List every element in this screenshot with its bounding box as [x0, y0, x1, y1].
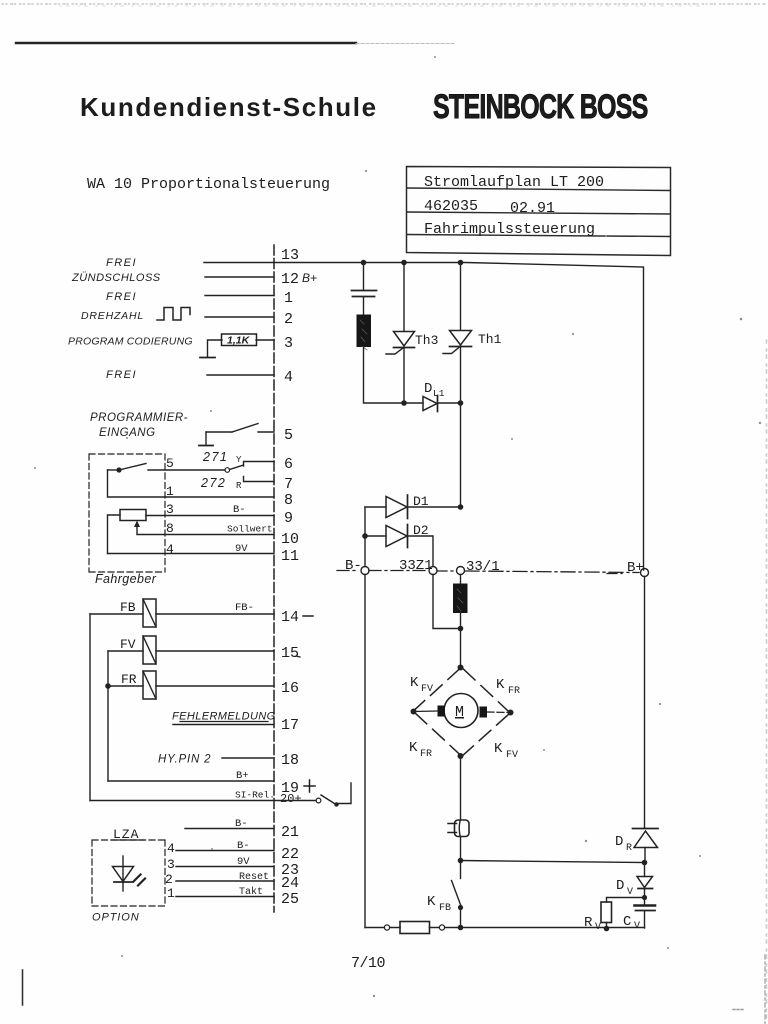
svg-text:FB: FB — [439, 903, 451, 914]
wire pin2 — [205, 316, 274, 318]
svg-text:3: 3 — [284, 335, 293, 352]
svg-text:FV: FV — [120, 637, 136, 652]
top rule line — [16, 42, 455, 45]
svg-text:Th1: Th1 — [478, 332, 502, 347]
node B+ terminal circle — [641, 569, 649, 577]
SI relay switch after pin20 — [316, 783, 351, 807]
svg-text:462035: 462035 — [424, 198, 478, 215]
label LZA — [111, 827, 144, 842]
svg-text:B-: B- — [345, 558, 362, 574]
svg-text:8: 8 — [284, 492, 293, 509]
wire pin1 — [205, 295, 274, 297]
contact circle S272 — [225, 468, 230, 473]
junction dot switch pivot — [116, 467, 121, 472]
junction dot DL1 rail right — [458, 400, 464, 406]
resistor R1 filled — [357, 315, 371, 350]
label DL1 — [424, 381, 445, 399]
svg-text:5: 5 — [166, 456, 174, 471]
wire pin24 Reset — [176, 872, 274, 883]
junction node at Th1 branch — [458, 260, 464, 266]
svg-text:R: R — [236, 481, 242, 491]
wire pin17 — [173, 724, 274, 726]
wire pin15 — [108, 650, 274, 652]
svg-text:FB-: FB- — [235, 602, 254, 614]
svg-text:18: 18 — [281, 752, 299, 769]
resistor RV — [601, 902, 612, 923]
svg-text:K: K — [410, 675, 419, 691]
wire D1 anode down to B- node — [364, 507, 366, 566]
wire pin8 — [108, 470, 275, 497]
contact KFV arm bottom-right — [462, 714, 509, 756]
svg-text:21: 21 — [281, 824, 299, 841]
wire pin22 B- — [176, 840, 274, 852]
wire left vertex to brush — [414, 710, 438, 713]
potentiometer body — [120, 510, 146, 521]
svg-text:8: 8 — [166, 521, 174, 536]
label CV — [623, 914, 640, 932]
wire B+ node down to DR — [644, 577, 646, 829]
junction node at Th3 branch — [401, 260, 407, 266]
svg-text:33/1: 33/1 — [466, 559, 500, 575]
relay contact FV — [120, 636, 156, 664]
svg-text:1: 1 — [167, 886, 175, 901]
wire pin18 — [222, 757, 274, 759]
svg-text:22: 22 — [281, 846, 299, 863]
scan mark bottom-left — [22, 970, 24, 1005]
junction node at capacitor branch — [361, 260, 367, 266]
motor bridge top vertex — [458, 665, 464, 671]
wire pin19 B+ — [108, 770, 274, 782]
wire pin14 FB- — [90, 602, 274, 614]
wire pin9 B- — [146, 515, 274, 517]
svg-text:17: 17 — [281, 717, 299, 734]
wire pin7 stub — [244, 477, 275, 482]
scan noise dotted strip top — [2, 4, 766, 6]
underline FEHLERMELDUNG — [180, 721, 268, 723]
svg-text:Fahrimpulssteuerung: Fahrimpulssteuerung — [424, 221, 595, 238]
contact KFR arm top-right — [463, 669, 510, 713]
svg-text:4: 4 — [284, 369, 293, 386]
motor brush right — [480, 707, 488, 718]
svg-text:OPTION: OPTION — [92, 912, 140, 924]
svg-text:Y: Y — [236, 455, 242, 465]
switch S271 at pin5 — [206, 424, 274, 445]
resistor R2 filled — [454, 584, 468, 613]
diode D2 — [365, 525, 433, 567]
label 271 Y — [202, 450, 242, 465]
wire 33Z1 node down and over — [433, 575, 461, 629]
contact KFR arm bottom-left — [415, 713, 462, 757]
svg-text:K: K — [494, 741, 503, 757]
svg-text:K: K — [496, 677, 505, 693]
svg-text:Kundendienst-Schule: Kundendienst-Schule — [80, 92, 378, 122]
node 33/1 terminal circle — [457, 567, 465, 575]
junction dot below R2 — [458, 626, 464, 632]
pin 19 plus note — [304, 780, 315, 792]
dash-dot lead left of B- — [337, 570, 359, 572]
dash-dot rail 33/1 to B+ — [465, 571, 639, 573]
svg-text:HY.PIN 2: HY.PIN 2 — [158, 754, 211, 766]
scan noise right edge — [766, 340, 768, 1024]
bottom rail wire — [365, 927, 645, 929]
svg-text:Reset: Reset — [239, 872, 269, 883]
fuse F1 — [400, 922, 430, 934]
svg-text:5: 5 — [284, 427, 293, 444]
wire pin21 B- — [185, 818, 274, 830]
svg-text:Th3: Th3 — [415, 333, 438, 348]
svg-text:DREHZAHL: DREHZAHL — [81, 310, 144, 322]
svg-text:B-: B- — [233, 504, 246, 516]
svg-text:PROGRAM CODIERUNG: PROGRAM CODIERUNG — [68, 336, 193, 348]
svg-text:7: 7 — [284, 476, 293, 493]
dash-dot rail 33Z1 to 33/1 — [438, 570, 456, 572]
svg-text:9: 9 — [284, 510, 293, 527]
node 33Z1 terminal circle — [429, 567, 437, 575]
dash-dot rail B- to 33Z1 — [369, 570, 429, 572]
svg-text:11: 11 — [281, 548, 299, 565]
svg-text:272: 272 — [200, 476, 226, 490]
wire pot left — [108, 515, 121, 554]
svg-text:15: 15 — [281, 645, 299, 662]
wire pin4 — [207, 374, 274, 376]
svg-text:SI-Rel.: SI-Rel. — [235, 790, 275, 801]
diode DR — [633, 829, 659, 863]
diode DV — [637, 863, 653, 906]
wire pin23 9V — [176, 856, 274, 868]
title box row 1: Stromlaufplan LT 200 — [424, 174, 604, 191]
wire pin12 — [205, 276, 274, 278]
contact KFV arm top-left — [413, 668, 460, 711]
wire resistor R1 down to DL1 rail — [364, 347, 424, 404]
svg-text:33Z1: 33Z1 — [399, 558, 433, 574]
dash-dot lead left of B+ — [607, 573, 622, 575]
svg-text:B+: B+ — [302, 271, 317, 285]
svg-text:V: V — [627, 887, 633, 898]
capacitor CV — [635, 906, 656, 929]
svg-text:R: R — [626, 843, 632, 854]
wire pin25 Takt — [176, 886, 274, 898]
junction dot KFB on rail — [458, 925, 464, 931]
title box row 3: Fahrimpulssteuerung — [424, 221, 595, 238]
Fahrgeber dashed box — [89, 454, 165, 572]
heading Kundendienst-Schule — [80, 92, 378, 122]
label 272 R — [200, 476, 242, 491]
svg-text:FB: FB — [120, 600, 136, 615]
motor M armature circle — [444, 694, 478, 728]
thyristor Th3 — [386, 263, 415, 404]
connector strip X1 dashed vertical — [273, 245, 275, 912]
junction dot D2 anode — [362, 533, 368, 539]
svg-text:ZÜNDSCHLOSS: ZÜNDSCHLOSS — [71, 272, 161, 284]
title box frame — [407, 167, 671, 256]
pin 14 dash note — [303, 615, 313, 617]
svg-text:4: 4 — [167, 841, 175, 856]
label DR — [615, 834, 632, 854]
junction dot brake branch — [458, 858, 464, 864]
svg-text:D: D — [615, 834, 623, 850]
wire pin13 FREI (left part of top feed) — [204, 262, 274, 264]
junction dot RV on rail — [604, 926, 610, 932]
svg-text:14: 14 — [281, 609, 299, 626]
resistor 1,1K box — [222, 334, 257, 347]
wire pin3 right of box — [256, 339, 274, 341]
motor bridge bottom vertex — [458, 753, 464, 759]
junction dot D1 cathode — [458, 504, 464, 510]
label PROGRAMMIER-EINGANG — [90, 412, 188, 439]
motor brush left — [438, 706, 446, 717]
svg-text:D: D — [424, 381, 432, 397]
svg-text:B-: B- — [235, 818, 248, 830]
pin numbers column — [280, 247, 302, 908]
diode D1 — [365, 495, 461, 519]
label KFB — [427, 894, 451, 914]
wire RV to rail — [606, 923, 608, 929]
thyristor Th1 — [443, 263, 472, 508]
motor bridge left vertex — [411, 709, 417, 715]
svg-text:Sollwert: Sollwert — [227, 524, 273, 535]
wire 33/1 node down to resistor R2 — [460, 575, 462, 585]
svg-text:2: 2 — [284, 311, 293, 328]
wire top B+ feed from pin13 — [274, 263, 644, 571]
wire motor bottom down — [460, 756, 462, 820]
label KFR top-right — [496, 677, 520, 697]
bus wire vertical FB to SI-Rel — [89, 614, 91, 801]
wire pin11 9V — [108, 553, 275, 555]
svg-text:25: 25 — [281, 891, 299, 908]
svg-text:16: 16 — [281, 680, 299, 697]
switch S272 inside Fahrgeber — [108, 464, 244, 471]
svg-text:6: 6 — [284, 456, 293, 473]
node B- terminal circle — [361, 567, 369, 575]
wire DV node left to RV — [607, 898, 645, 903]
wire capacitor branch upper — [363, 263, 365, 290]
wire pin3 left of box to ground drop — [208, 340, 223, 357]
junction dot DL1 rail left — [401, 400, 407, 406]
svg-text:2: 2 — [165, 872, 173, 887]
wire pin16 — [108, 685, 274, 687]
wire plug to brake node — [460, 837, 462, 879]
svg-text:7/10: 7/10 — [351, 955, 386, 972]
wire pin20 SI-Rel — [90, 790, 316, 801]
svg-text:1,1K: 1,1K — [227, 335, 251, 347]
wire brake branch to right — [461, 861, 645, 863]
rail terminal circle left — [384, 925, 389, 930]
LZA option dashed box — [92, 840, 165, 906]
pin 15 tick — [296, 656, 300, 657]
square wave icon — [157, 308, 190, 321]
bus wire vertical FV to pin19 — [107, 651, 109, 781]
svg-text:FR: FR — [121, 672, 137, 687]
svg-text:4: 4 — [166, 542, 174, 557]
capacitor C top — [352, 291, 377, 297]
label KFV bottom-right — [494, 741, 518, 761]
svg-text:13: 13 — [281, 247, 299, 264]
label KFR bottom-left — [409, 740, 432, 760]
pot wiper arrow to pin10 — [137, 523, 274, 535]
junction dot DV cathode — [642, 895, 647, 900]
svg-text:B-: B- — [237, 840, 250, 852]
wire B- node down to bottom rail — [364, 575, 366, 928]
relay contact FB — [120, 599, 156, 627]
label KFV top-left — [410, 675, 433, 695]
svg-text:WA 10 Proportionalsteuerung: WA 10 Proportionalsteuerung — [87, 176, 330, 193]
wire capacitor to resistor — [363, 297, 365, 315]
svg-text:L1: L1 — [433, 388, 445, 399]
svg-text:STEINBOCK BOSS: STEINBOCK BOSS — [433, 88, 648, 126]
svg-text:3: 3 — [166, 502, 174, 517]
svg-text:20+: 20+ — [280, 792, 302, 806]
plug connector below motor — [448, 820, 469, 837]
logo STEINBOCK BOSS — [433, 88, 648, 126]
switch KFB — [452, 881, 464, 928]
junction dot FR tap — [105, 683, 111, 689]
svg-text:FV: FV — [506, 750, 518, 761]
LZA pin labels 4 3 2 1 — [165, 841, 175, 901]
svg-text:3: 3 — [167, 857, 175, 872]
svg-text:M: M — [455, 704, 464, 721]
svg-text:9V: 9V — [235, 543, 248, 555]
title box row 2: 462035 02.91 — [424, 198, 555, 217]
svg-text:D2: D2 — [413, 523, 429, 538]
svg-text:02.91: 02.91 — [510, 200, 555, 217]
LED symbol — [113, 856, 146, 891]
svg-text:FREI: FREI — [106, 257, 137, 269]
svg-text:1: 1 — [284, 290, 293, 307]
svg-text:Stromlaufplan LT 200: Stromlaufplan LT 200 — [424, 174, 604, 191]
svg-text:V: V — [634, 921, 640, 932]
title WA 10 Proportionalsteuerung — [87, 176, 330, 193]
svg-text:12: 12 — [281, 271, 299, 288]
svg-text:B+: B+ — [236, 770, 249, 782]
svg-text:FV: FV — [421, 684, 433, 695]
svg-text:PROGRAMMIER-: PROGRAMMIER- — [90, 412, 188, 424]
relay contact FR — [121, 671, 156, 699]
svg-text:Takt: Takt — [239, 886, 263, 898]
svg-text:K: K — [427, 894, 436, 910]
svg-text:R: R — [584, 915, 593, 931]
wire pin6 stub — [244, 462, 275, 467]
label RV — [584, 915, 601, 933]
svg-text:271: 271 — [202, 450, 228, 464]
svg-text:24: 24 — [281, 875, 299, 892]
svg-text:V: V — [595, 922, 601, 933]
svg-text:K: K — [409, 740, 418, 756]
svg-text:FEHLERMELDUNG: FEHLERMELDUNG — [172, 711, 276, 723]
junction dot brake wire right — [642, 860, 648, 866]
wire right brush to vertex — [487, 711, 511, 714]
svg-text:10: 10 — [281, 531, 299, 548]
svg-text:D1: D1 — [413, 494, 429, 509]
motor bridge right vertex — [508, 710, 514, 716]
svg-text:FREI: FREI — [106, 291, 137, 303]
diode DL1 — [423, 396, 461, 412]
svg-text:9V: 9V — [237, 856, 250, 868]
svg-text:FR: FR — [420, 749, 432, 760]
ground bar pin3 — [200, 357, 215, 359]
wire resistor R2 to motor top — [460, 613, 462, 668]
label DV — [616, 878, 633, 898]
svg-text:FREI: FREI — [106, 369, 137, 381]
rail terminal circle right — [439, 925, 444, 930]
ground bar pin5 switch — [199, 445, 213, 447]
svg-text:Fahrgeber: Fahrgeber — [95, 572, 157, 586]
svg-text:C: C — [623, 914, 631, 930]
svg-text:D: D — [616, 878, 624, 894]
Fahrgeber pin labels 5 1 3 8 4 — [166, 456, 174, 557]
svg-text:FR: FR — [508, 686, 520, 697]
